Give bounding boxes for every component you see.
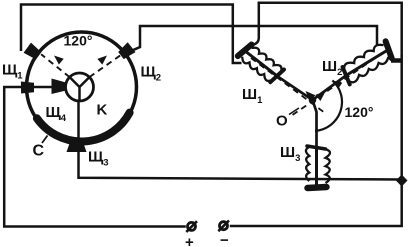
- coil Sh1 dashed EMF axis: [251, 58, 325, 113]
- armature Y winding inside slip ring: [70, 77, 90, 101]
- brush (top-left, unlabeled): [24, 43, 42, 60]
- brush Shch3 (bottom): [67, 142, 87, 152]
- svg-text:Ш1: Ш1: [242, 86, 263, 106]
- coil Sh2 body: [345, 49, 389, 76]
- terminal plus: [188, 222, 196, 230]
- slip ring K (inner circle): [66, 73, 94, 101]
- coil Sh2 dashed EMF axis: [291, 52, 384, 116]
- coil Sh1 lead to star point: [277, 76, 313, 100]
- wire: coil Sh1 outer end over the top to right rail: [251, 3, 402, 57]
- brush Shch4 (slip-ring brush): [52, 79, 67, 95]
- svg-text:120°: 120°: [64, 33, 93, 49]
- wire: stub coil Sh2 outer end to right rail: [391, 58, 402, 63]
- svg-text:Щ4: Щ4: [46, 104, 67, 124]
- junction: Shch3 wire / right rail: [396, 175, 408, 187]
- label C with pointer tick: [42, 136, 48, 144]
- coil Sh2 lead to star point: [313, 76, 347, 101]
- wire: brush Shch1 to left rail, bottom to plus terminal: [4, 87, 186, 227]
- svg-text:О: О: [276, 113, 288, 130]
- coil Sh3 body: [315, 147, 318, 187]
- svg-text:C: C: [33, 143, 45, 160]
- wire: armature tap down to brush Shch3: [77, 100, 80, 147]
- svg-text:Щ2: Щ2: [141, 64, 162, 84]
- svg-text:Ш2: Ш2: [322, 58, 342, 78]
- coil Sh1 body: [244, 50, 278, 77]
- svg-text:K: K: [97, 102, 108, 119]
- dashed axis to brush Shch2: [89, 54, 122, 77]
- dashed axis to top-left brush: [41, 54, 70, 77]
- coil Sh3 lead to star point: [313, 100, 317, 149]
- svg-text:Ш3: Ш3: [280, 144, 300, 164]
- wire: right rail down to bottom right corner and minus terminal: [230, 55, 402, 226]
- wire: brush Shch2 up and over to coil Sh2 outer end: [128, 26, 378, 53]
- svg-text:Щ3: Щ3: [88, 149, 109, 169]
- brush Shch2 (top-right): [118, 42, 135, 59]
- wire: brush Shch3 down and across to right rail: [79, 146, 402, 180]
- arrow on left dashed axis: [54, 56, 64, 65]
- svg-text:120°: 120°: [345, 104, 374, 120]
- wire: top-left brush up and over to coil Sh1 outer end: [21, 5, 242, 64]
- commutator thick segment arc: [37, 113, 130, 142]
- commutator ring (outer circle): [27, 32, 137, 142]
- svg-text:+: +: [185, 234, 194, 247]
- terminal minus: [220, 222, 228, 230]
- arrow on right dashed axis: [97, 56, 107, 65]
- star point O: [309, 96, 317, 104]
- svg-text:Щ1: Щ1: [2, 62, 23, 82]
- 120 deg arc between Sh3 and Sh2 axes: [315, 80, 342, 130]
- svg-text:−: −: [220, 232, 229, 247]
- brush Shch1 (left): [21, 82, 34, 94]
